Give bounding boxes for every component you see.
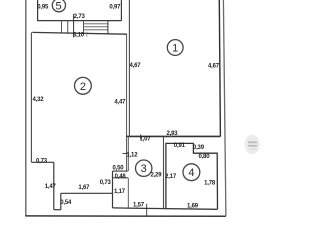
svg-text:1,78: 1,78 xyxy=(204,181,216,187)
svg-text:0,48: 0,48 xyxy=(115,174,127,180)
svg-text:3: 3 xyxy=(141,163,147,175)
svg-text:4,47: 4,47 xyxy=(114,99,126,105)
svg-text:3,10: 3,10 xyxy=(73,33,85,39)
svg-text:0,97: 0,97 xyxy=(109,5,121,11)
svg-text:0,73: 0,73 xyxy=(36,158,48,164)
svg-text:0,50: 0,50 xyxy=(113,165,125,171)
svg-text:1,69: 1,69 xyxy=(187,204,199,210)
svg-text:1,57: 1,57 xyxy=(133,203,145,209)
svg-text:4: 4 xyxy=(188,167,194,179)
svg-text:0,39: 0,39 xyxy=(193,145,205,151)
svg-text:2,73: 2,73 xyxy=(74,14,86,20)
svg-text:2,17: 2,17 xyxy=(165,174,177,180)
svg-text:0,91: 0,91 xyxy=(174,143,186,149)
svg-text:0,54: 0,54 xyxy=(60,200,72,206)
svg-text:0,73: 0,73 xyxy=(100,180,112,186)
svg-text:1,12: 1,12 xyxy=(126,153,138,159)
svg-text:1,47: 1,47 xyxy=(45,184,57,190)
svg-text:4,32: 4,32 xyxy=(32,97,44,103)
svg-text:0,80: 0,80 xyxy=(198,154,210,160)
svg-text:1,17: 1,17 xyxy=(114,189,126,195)
svg-text:0,95: 0,95 xyxy=(37,4,49,10)
svg-text:1,67: 1,67 xyxy=(78,185,90,191)
svg-text:5: 5 xyxy=(56,0,62,12)
svg-text:1,07: 1,07 xyxy=(140,137,152,143)
svg-text:4,67: 4,67 xyxy=(130,63,142,69)
svg-text:2,29: 2,29 xyxy=(150,172,162,178)
svg-text:1: 1 xyxy=(172,43,178,55)
svg-text:2,93: 2,93 xyxy=(167,131,179,137)
svg-text:4,67: 4,67 xyxy=(208,63,220,69)
svg-text:2: 2 xyxy=(80,81,86,93)
